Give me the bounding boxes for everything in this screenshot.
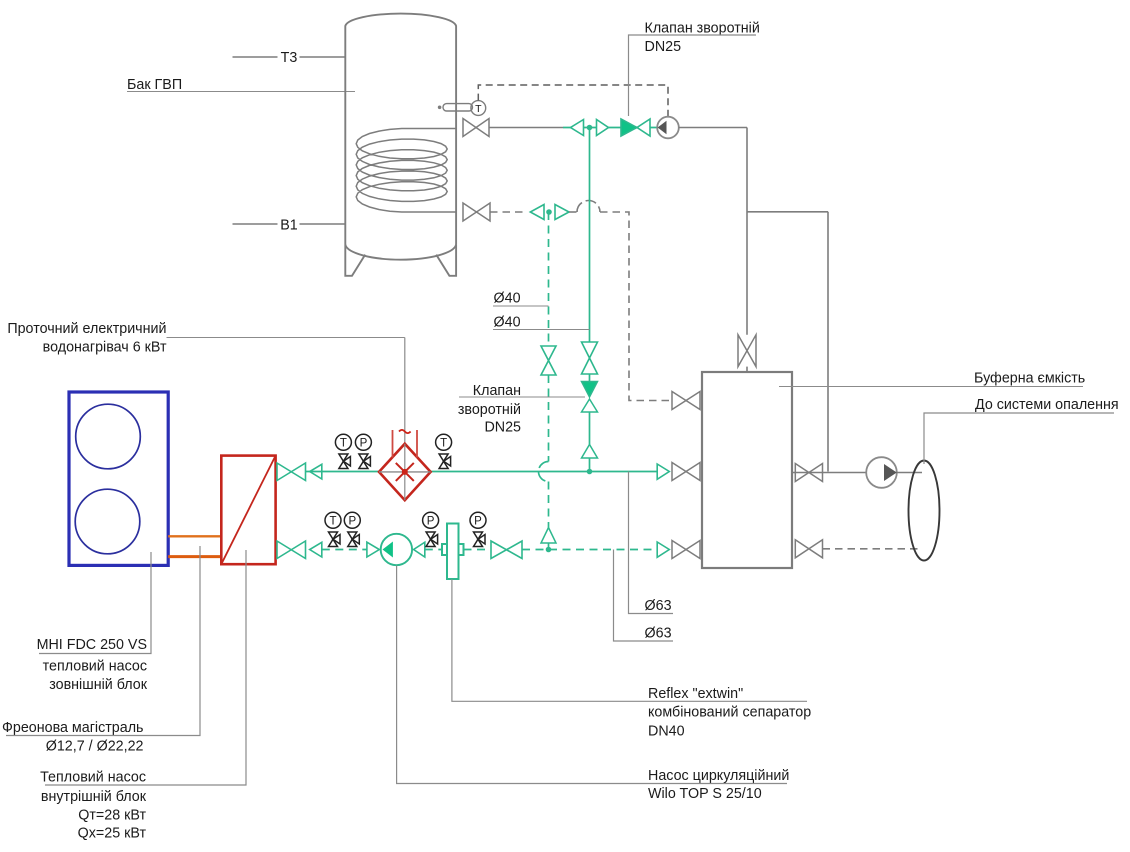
outdoor unit fan 2	[75, 489, 140, 554]
gauge P after pump	[423, 512, 439, 546]
flow arrow after pump	[414, 542, 425, 557]
svg-text:Клапан зворотній: Клапан зворотній	[645, 21, 760, 37]
wire: branch y=212 to x=828	[747, 211, 828, 213]
hop of dashed riser over supply line	[539, 462, 549, 482]
wire: DHW return dashed from tank (y=212)	[490, 211, 524, 213]
svg-text:Ø63: Ø63	[645, 626, 672, 642]
valve on supply at indoor unit	[277, 463, 322, 481]
union fitting on return	[530, 205, 569, 220]
green dashed riser (x=548.5)	[548, 212, 550, 550]
svg-text:зовнішній блок: зовнішній блок	[49, 677, 148, 693]
buffer tank	[702, 372, 792, 568]
outdoor unit MHI FDC 250 VS	[69, 392, 168, 565]
svg-text:До системи опалення: До системи опалення	[975, 397, 1119, 413]
gauge T on supply	[335, 434, 351, 468]
svg-text:Фреонова магістраль: Фреонова магістраль	[2, 720, 144, 736]
svg-text:T3: T3	[281, 50, 298, 66]
svg-text:MHI FDC 250 VS: MHI FDC 250 VS	[37, 637, 147, 653]
svg-text:DN25: DN25	[645, 39, 682, 55]
svg-text:P: P	[360, 437, 368, 449]
flow arrow before pump	[367, 542, 379, 557]
gauge T after heater	[436, 434, 452, 468]
valve on return at indoor unit	[277, 541, 322, 559]
valve at buffer right bottom	[795, 540, 822, 558]
svg-text:Reflex "extwin": Reflex "extwin"	[648, 686, 743, 702]
flow arrow on dashed riser	[541, 528, 556, 544]
svg-text:DN40: DN40	[648, 724, 685, 740]
gauge P on supply	[355, 434, 371, 468]
valve at buffer bottom-left port	[672, 541, 700, 559]
tank Бак ГВП leader	[127, 91, 355, 93]
svg-text:Насос циркуляційний: Насос циркуляційний	[648, 768, 789, 784]
indoor unit diagonal	[221, 456, 275, 565]
wire: pump outlet to right	[679, 127, 747, 129]
heating system ellipse	[909, 461, 940, 561]
gauge P after separator	[470, 512, 486, 546]
svg-text:T: T	[440, 437, 447, 449]
valve on solid riser	[582, 342, 598, 374]
valve on return (green)	[491, 541, 522, 559]
svg-text:Qх=25 кВт: Qх=25 кВт	[78, 826, 147, 842]
svg-text:B1: B1	[280, 218, 298, 234]
leader to heater	[167, 337, 405, 339]
valve at tank top outlet	[463, 119, 489, 137]
wire: DHW supply line from tank (y=127.5)	[489, 127, 563, 129]
svg-text:Ø40: Ø40	[494, 291, 521, 307]
valve on buffer top (vertical)	[738, 335, 756, 367]
svg-text:зворотній: зворотній	[458, 402, 521, 418]
svg-text:комбінований сепаратор: комбінований сепаратор	[648, 705, 811, 721]
svg-text:P: P	[348, 515, 356, 527]
node T3 inlet line	[233, 56, 346, 58]
svg-text:Ø40: Ø40	[494, 315, 521, 331]
svg-text:Тепловий насос: Тепловий насос	[40, 770, 146, 786]
svg-text:DN25: DN25	[484, 420, 521, 436]
svg-text:Ø63: Ø63	[645, 598, 672, 614]
wire: supply line B (y=471.5) green	[306, 471, 380, 473]
wire: stub to buffer top valve	[746, 367, 748, 372]
svg-text:Qт=28 кВт: Qт=28 кВт	[78, 808, 146, 824]
valve at buffer right middle	[795, 464, 822, 482]
tank left leg	[345, 245, 365, 276]
svg-text:Wilo TOP S 25/10: Wilo TOP S 25/10	[648, 786, 762, 802]
heat-exchanger coil inside tank	[356, 129, 456, 213]
control line dashed (sensor to pump)	[478, 85, 668, 116]
node junction supply/riser	[587, 469, 593, 475]
valve at buffer tank top-left port	[672, 392, 700, 410]
flow arrow into buffer (return)	[657, 542, 669, 557]
temperature probe on tank	[438, 101, 486, 116]
node B1 inlet line	[233, 223, 346, 225]
freon line 2	[168, 555, 221, 558]
gauge P on return	[344, 512, 360, 546]
svg-text:Проточний електричний: Проточний електричний	[7, 321, 166, 337]
check valve DN25 (riser, green)	[582, 382, 598, 398]
svg-text:тепловий насос: тепловий насос	[43, 659, 147, 675]
green segment of DHW supply	[563, 127, 657, 129]
leader to riser check valve	[459, 396, 585, 398]
DHW circulation pump	[657, 117, 679, 139]
node junction return/dashed riser	[546, 547, 552, 553]
separator Reflex extwin	[442, 524, 464, 580]
leader for top check valve label	[629, 35, 757, 116]
gauge T on return	[325, 512, 341, 546]
tank Бак ГВП (DHW tank)	[345, 14, 456, 260]
svg-text:T: T	[475, 103, 482, 115]
svg-text:Буферна ємкість: Буферна ємкість	[974, 371, 1085, 387]
svg-text:внутрішній блок: внутрішній блок	[41, 789, 147, 805]
green riser (solid, x=589.5)	[589, 128, 591, 472]
svg-text:Бак ГВП: Бак ГВП	[127, 77, 182, 93]
wire: buffer right middle out	[792, 472, 866, 474]
wire: pump to system	[897, 472, 922, 474]
indoor unit heat exchanger	[221, 456, 275, 565]
tank right leg	[436, 245, 456, 276]
svg-text:P: P	[427, 515, 435, 527]
wire: return line C (y=549.5) green dashed	[322, 549, 367, 551]
heating system pump	[866, 457, 897, 488]
check valve DN25 (top, green)	[621, 119, 650, 136]
node junction return/dashed riser	[546, 209, 552, 215]
valve at tank lower outlet	[463, 203, 490, 221]
flow arrow into buffer (supply)	[657, 464, 669, 479]
svg-text:T: T	[340, 437, 347, 449]
svg-text:водонагрівач 6 кВт: водонагрівач 6 кВт	[43, 340, 167, 356]
svg-text:P: P	[474, 515, 482, 527]
wire: vertical drop x=828	[827, 212, 829, 472]
wire: dashed return continues with hop over riser	[569, 211, 578, 213]
flow arrow on riser	[582, 445, 598, 459]
node junction DHW/riser	[587, 125, 593, 131]
outdoor unit fan 1	[76, 404, 141, 469]
union fitting on DHW line	[571, 120, 609, 136]
electric flow heater 6kW	[379, 338, 431, 501]
svg-text:Ø12,7 / Ø22,22: Ø12,7 / Ø22,22	[46, 739, 144, 755]
svg-text:T: T	[329, 515, 336, 527]
freon line 1	[168, 535, 221, 537]
valve on dashed riser	[541, 346, 556, 375]
wire: vertical drop x=747	[746, 128, 748, 335]
circulation pump Wilo TOP S 25/10	[381, 534, 412, 565]
valve at buffer middle-left port	[672, 463, 700, 481]
wire: buffer right bottom dashed	[823, 548, 921, 550]
